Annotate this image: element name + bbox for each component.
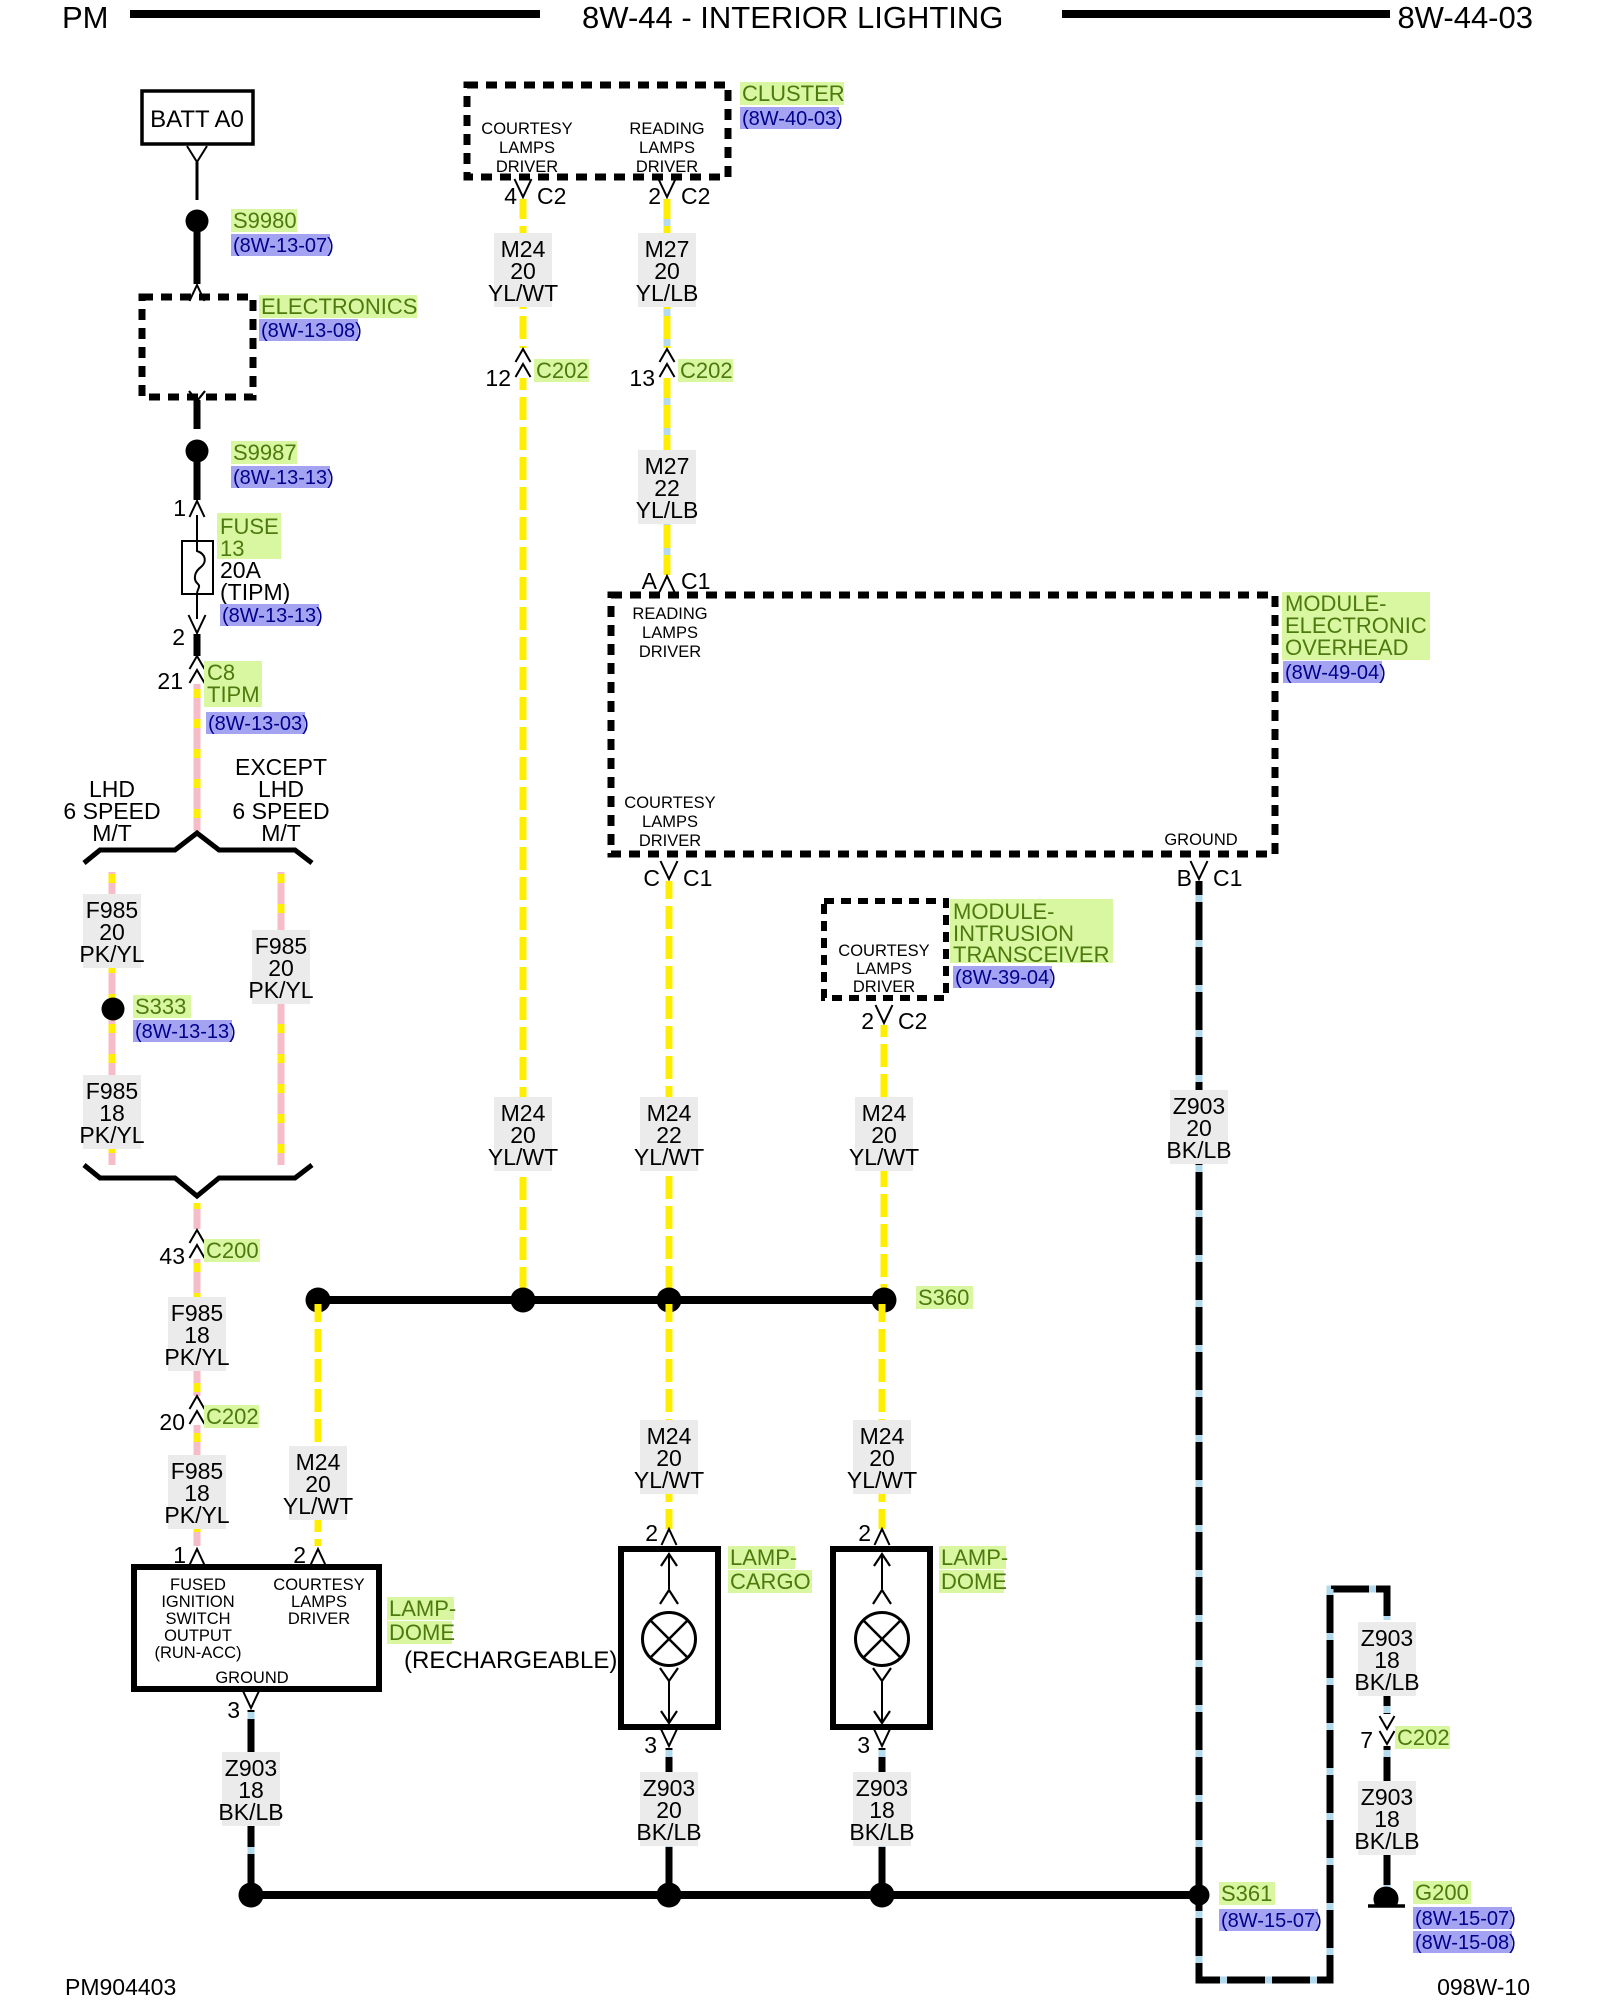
lamp LAMP-DOME box bbox=[833, 1549, 930, 1727]
connector Y below ELECTRONICS bbox=[189, 391, 205, 401]
svg-text:S9980: S9980 bbox=[233, 208, 297, 233]
svg-text:LAMPS: LAMPS bbox=[856, 960, 912, 978]
svg-text:LAMPS: LAMPS bbox=[291, 1593, 347, 1611]
svg-text:SWITCH: SWITCH bbox=[165, 1610, 230, 1628]
label M27 22 YL/LB bbox=[636, 450, 699, 524]
svg-text:YL/WT: YL/WT bbox=[849, 1144, 919, 1170]
svg-text:TRANSCEIVER: TRANSCEIVER bbox=[953, 942, 1109, 967]
svg-text:BK/LB: BK/LB bbox=[849, 1819, 914, 1845]
svg-text:DRIVER: DRIVER bbox=[496, 158, 558, 176]
svg-text:M/T: M/T bbox=[92, 820, 132, 846]
svg-text:CLUSTER: CLUSTER bbox=[742, 81, 845, 106]
label F985 18 PK/YL mid bbox=[164, 1297, 229, 1371]
wire M24 YL/WT C202 to S360 bbox=[520, 378, 527, 1296]
wire F985 20 PK/YL left branch bbox=[109, 872, 116, 1165]
svg-text:(8W-15-08): (8W-15-08) bbox=[1415, 1932, 1516, 1954]
label M24 20 YL/WT dome bbox=[847, 1420, 917, 1494]
svg-text:(8W-15-07): (8W-15-07) bbox=[1415, 1908, 1516, 1930]
label S360 bbox=[916, 1285, 973, 1310]
label EXCEPT LHD 6 SPEED M/T bbox=[232, 754, 329, 846]
svg-text:COURTESY: COURTESY bbox=[273, 1576, 364, 1594]
svg-text:READING: READING bbox=[629, 120, 704, 138]
label M24 20 YL/WT top bbox=[488, 233, 558, 307]
svg-text:LAMPS: LAMPS bbox=[642, 813, 698, 831]
junction dot ground bus left bbox=[239, 1883, 264, 1908]
header rule left bbox=[130, 10, 540, 18]
pin 2 C2 cluster bbox=[648, 179, 710, 209]
pin 2 LAMP-DOME bbox=[858, 1520, 889, 1546]
svg-text:2: 2 bbox=[648, 183, 661, 209]
module MODULE-ELECTRONIC OVERHEAD dashed box bbox=[611, 595, 1275, 854]
wire M27 22 YL/LB C202 to module pin A bbox=[664, 378, 671, 575]
svg-text:PK/YL: PK/YL bbox=[79, 941, 144, 967]
label Z903 20 BK/LB cargo bbox=[636, 1772, 701, 1846]
svg-text:BK/LB: BK/LB bbox=[1166, 1137, 1231, 1163]
svg-text:COURTESY: COURTESY bbox=[838, 942, 929, 960]
label M24 20 YL/WT cargo bbox=[634, 1420, 704, 1494]
svg-text:M/T: M/T bbox=[261, 820, 301, 846]
svg-text:12: 12 bbox=[485, 365, 511, 391]
label C202 pin 13 bbox=[678, 358, 733, 383]
svg-text:(8W-39-04): (8W-39-04) bbox=[955, 967, 1056, 989]
svg-text:DRIVER: DRIVER bbox=[853, 978, 915, 996]
label C202 left bbox=[204, 1404, 259, 1429]
wire S9987 to fuse thick bbox=[194, 462, 201, 500]
svg-text:TIPM: TIPM bbox=[207, 682, 260, 707]
label F985 20 PK/YL left bbox=[79, 894, 144, 968]
pin 1 lamp dome rechargeable bbox=[173, 1542, 204, 1568]
module MODULE-INTRUSION TRANSCEIVER dashed box bbox=[824, 901, 946, 998]
svg-text:YL/WT: YL/WT bbox=[634, 1467, 704, 1493]
svg-text:21: 21 bbox=[157, 668, 183, 694]
junction dot S360 right bbox=[872, 1288, 897, 1313]
svg-text:READING: READING bbox=[632, 605, 707, 623]
svg-text:ELECTRONICS: ELECTRONICS bbox=[261, 294, 417, 319]
junction dot ground bus dome bbox=[870, 1883, 895, 1908]
svg-text:DOME: DOME bbox=[389, 1620, 455, 1645]
svg-text:PK/YL: PK/YL bbox=[248, 977, 313, 1003]
svg-text:098W-10: 098W-10 bbox=[1437, 1974, 1530, 2000]
wire into fuse thin bbox=[196, 515, 198, 545]
label M24 20 YL/WT mid bbox=[488, 1097, 558, 1171]
wire S9980 to ELECTRONICS thick bbox=[194, 232, 201, 284]
svg-text:4: 4 bbox=[504, 183, 517, 209]
junction dot ground bus cargo bbox=[657, 1883, 682, 1908]
connector chevron into ELECTRONICS bbox=[190, 285, 205, 301]
svg-text:(8W-13-07): (8W-13-07) bbox=[233, 235, 334, 257]
pin C C1 module overhead bbox=[643, 861, 712, 891]
svg-text:LAMPS: LAMPS bbox=[639, 139, 695, 157]
label Z903 18 BK/LB loop lower bbox=[1354, 1781, 1419, 1855]
junction dot S360 left bbox=[306, 1288, 331, 1313]
pin 2 LAMP-CARGO bbox=[645, 1520, 676, 1546]
svg-text:(8W-15-07): (8W-15-07) bbox=[1221, 1910, 1322, 1932]
label S9980 (8W-13-07) bbox=[231, 208, 334, 257]
label S333 (8W-13-13) bbox=[133, 994, 236, 1043]
wire M24 YL/WT S360 to lamp dome pin 2 bbox=[879, 1304, 886, 1529]
label LAMP-CARGO bbox=[728, 1545, 812, 1594]
wire Z903 20 BK/LB module pin B to S361 bbox=[1196, 881, 1203, 1895]
label Z903 20 BK/LB right bbox=[1166, 1090, 1231, 1164]
svg-text:PK/YL: PK/YL bbox=[79, 1122, 144, 1148]
label M24 20 YL/WT dome rechargeable bbox=[283, 1446, 353, 1520]
svg-text:(8W-13-13): (8W-13-13) bbox=[135, 1021, 236, 1043]
svg-text:DRIVER: DRIVER bbox=[639, 643, 701, 661]
svg-text:C202: C202 bbox=[1397, 1725, 1450, 1750]
label Z903 18 BK/LB loop upper bbox=[1354, 1622, 1419, 1696]
svg-text:DRIVER: DRIVER bbox=[639, 832, 701, 850]
svg-text:PM904403: PM904403 bbox=[65, 1974, 176, 2000]
svg-text:13: 13 bbox=[629, 365, 655, 391]
splice S9987 bbox=[186, 440, 209, 463]
svg-text:BK/LB: BK/LB bbox=[636, 1819, 701, 1845]
svg-text:B: B bbox=[1177, 865, 1192, 891]
svg-text:C2: C2 bbox=[681, 183, 710, 209]
svg-text:C: C bbox=[643, 865, 660, 891]
svg-text:CARGO: CARGO bbox=[730, 1569, 811, 1594]
svg-text:S333: S333 bbox=[135, 994, 186, 1019]
pin B C1 module overhead ground bbox=[1177, 861, 1243, 891]
label M24 20 YL/WT intrusion bbox=[849, 1097, 919, 1171]
svg-text:A: A bbox=[642, 568, 658, 594]
svg-text:S9987: S9987 bbox=[233, 440, 297, 465]
svg-text:(RUN-ACC): (RUN-ACC) bbox=[154, 1644, 241, 1662]
svg-text:COURTESY: COURTESY bbox=[481, 120, 572, 138]
label LAMP-DOME (RECHARGEABLE) bbox=[387, 1596, 617, 1674]
svg-text:DRIVER: DRIVER bbox=[288, 1610, 350, 1628]
svg-text:(8W-13-03): (8W-13-03) bbox=[208, 713, 309, 735]
label M24 22 YL/WT bbox=[634, 1097, 704, 1171]
pin 3 lamp dome rechargeable bbox=[227, 1690, 259, 1723]
label Z903 18 BK/LB left bbox=[218, 1752, 283, 1826]
splice S333 bbox=[102, 998, 125, 1021]
svg-text:C1: C1 bbox=[1213, 865, 1242, 891]
svg-text:C1: C1 bbox=[681, 568, 710, 594]
pin 2 lamp dome rechargeable bbox=[293, 1542, 325, 1568]
svg-text:YL/WT: YL/WT bbox=[283, 1493, 353, 1519]
svg-text:LAMP-: LAMP- bbox=[730, 1545, 797, 1570]
wire fuse to C8 thick bbox=[194, 634, 201, 656]
label LHD 6 SPEED M/T bbox=[63, 776, 160, 846]
svg-text:20: 20 bbox=[159, 1409, 185, 1435]
svg-text:C2: C2 bbox=[537, 183, 566, 209]
svg-text:(RECHARGEABLE): (RECHARGEABLE) bbox=[404, 1647, 617, 1674]
label LAMP-DOME bbox=[939, 1545, 1008, 1594]
svg-text:7: 7 bbox=[1360, 1727, 1373, 1753]
svg-text:2: 2 bbox=[861, 1008, 874, 1034]
wire F985 PK/YL fuse to branch split bbox=[194, 684, 201, 831]
splice S361 junction dot bbox=[1189, 1885, 1210, 1906]
svg-text:2: 2 bbox=[645, 1520, 658, 1546]
svg-text:1: 1 bbox=[173, 495, 186, 521]
wire M24 22 YL/WT module pin C to S360 bbox=[666, 881, 673, 1296]
wire C202 to lamp dome rechargeable pin 1 F985 PK/YL bbox=[194, 1425, 201, 1546]
wire Z903 20 BK/LB cargo to ground bus bbox=[666, 1748, 673, 1895]
connector C202 pin 13 chevrons bbox=[660, 349, 675, 362]
pin 3 LAMP-CARGO bbox=[644, 1728, 677, 1758]
svg-text:DRIVER: DRIVER bbox=[636, 158, 698, 176]
wire M24 20 YL/WT cluster pin 4 to C202 bbox=[520, 199, 527, 348]
label FUSE 13 20A (TIPM) (8W-13-13) bbox=[217, 513, 323, 627]
header rule right bbox=[1062, 10, 1390, 18]
wire out of fuse thin bbox=[196, 594, 198, 619]
svg-text:(8W-13-08): (8W-13-08) bbox=[261, 320, 362, 342]
splice S9980 bbox=[186, 210, 209, 233]
connector C8 pin 21 chevrons bbox=[190, 656, 205, 669]
svg-text:3: 3 bbox=[857, 1732, 870, 1758]
svg-text:3: 3 bbox=[644, 1732, 657, 1758]
svg-text:GROUND: GROUND bbox=[1164, 831, 1237, 849]
svg-text:YL/LB: YL/LB bbox=[636, 497, 699, 523]
svg-text:LAMP-: LAMP- bbox=[389, 1596, 456, 1621]
fuse F13 box bbox=[182, 541, 213, 594]
wire F985 20 PK/YL right branch bbox=[278, 872, 285, 1165]
wire Z903 BK/LB S361 loop to C202 bbox=[1199, 1589, 1387, 1980]
junction dot S360 reading wire bbox=[657, 1288, 682, 1313]
svg-text:PK/YL: PK/YL bbox=[164, 1502, 229, 1528]
module CLUSTER dashed box bbox=[467, 85, 728, 177]
label S361 (8W-15-07) bbox=[1219, 1881, 1322, 1932]
connector C200 pin 43 chevrons bbox=[190, 1230, 205, 1243]
svg-text:OUTPUT: OUTPUT bbox=[164, 1627, 232, 1645]
lamp LAMP-CARGO box bbox=[621, 1549, 718, 1727]
pin 2 C2 intrusion transceiver bbox=[861, 1005, 927, 1034]
svg-text:GROUND: GROUND bbox=[215, 1669, 288, 1687]
svg-text:C202: C202 bbox=[680, 358, 733, 383]
svg-text:(8W-13-13): (8W-13-13) bbox=[233, 467, 334, 489]
wire M27 20 YL/LB cluster pin 2 to C202 bbox=[664, 199, 671, 348]
connector V below BATT A0 bbox=[187, 146, 207, 162]
wire BK/LB label to C202 pin 7 bbox=[1384, 1696, 1391, 1714]
label S9987 (8W-13-13) bbox=[231, 440, 334, 489]
svg-text:43: 43 bbox=[159, 1243, 185, 1269]
label G200 (8W-15-07) (8W-15-08) bbox=[1413, 1880, 1516, 1954]
lamp LAMP-DOME RECHARGEABLE box bbox=[134, 1567, 379, 1689]
pin A C1 module overhead bbox=[642, 568, 711, 594]
fuse F13 element curve bbox=[195, 541, 205, 594]
wire M24 YL/WT S360 to lamp dome rechargeable pin 2 bbox=[315, 1304, 322, 1546]
svg-text:8W-44 - INTERIOR LIGHTING: 8W-44 - INTERIOR LIGHTING bbox=[582, 0, 1003, 35]
svg-text:BK/LB: BK/LB bbox=[1354, 1828, 1419, 1854]
label Z903 18 BK/LB dome bbox=[849, 1772, 914, 1846]
ground bus S361 line bbox=[251, 1891, 1199, 1899]
label C202 pin 12 bbox=[534, 358, 589, 383]
svg-text:C200: C200 bbox=[206, 1238, 259, 1263]
label F985 18 PK/YL left bbox=[79, 1075, 144, 1149]
svg-text:YL/WT: YL/WT bbox=[847, 1467, 917, 1493]
svg-text:PK/YL: PK/YL bbox=[164, 1344, 229, 1370]
svg-text:G200: G200 bbox=[1415, 1880, 1469, 1905]
svg-text:(8W-40-03): (8W-40-03) bbox=[742, 108, 843, 130]
label M27 20 YL/LB bbox=[636, 233, 699, 307]
splice bus S360 bbox=[318, 1296, 884, 1304]
svg-text:3: 3 bbox=[227, 1697, 240, 1723]
wire M24 20 YL/WT intrusion to S360 bbox=[881, 1025, 888, 1296]
junction dot S360 courtesy wire bbox=[511, 1288, 536, 1313]
svg-text:YL/LB: YL/LB bbox=[636, 280, 699, 306]
svg-text:C1: C1 bbox=[683, 865, 712, 891]
svg-text:8W-44-03: 8W-44-03 bbox=[1397, 0, 1533, 35]
label C8 TIPM (8W-13-03) bbox=[204, 660, 309, 735]
svg-text:YL/WT: YL/WT bbox=[488, 280, 558, 306]
svg-text:LAMPS: LAMPS bbox=[499, 139, 555, 157]
wire ELECTRONICS to S9987 thick bbox=[194, 400, 201, 429]
label ELECTRONICS (8W-13-08) bbox=[259, 294, 417, 342]
svg-text:C202: C202 bbox=[206, 1404, 259, 1429]
svg-text:C2: C2 bbox=[898, 1008, 927, 1034]
svg-text:YL/WT: YL/WT bbox=[634, 1144, 704, 1170]
svg-text:S360: S360 bbox=[918, 1285, 969, 1310]
wire C200 to C202 F985 PK/YL bbox=[194, 1259, 201, 1396]
connector C202 pin 12 chevrons bbox=[516, 349, 531, 362]
label C202 pin 7 bbox=[1395, 1725, 1450, 1750]
svg-text:(8W-49-04): (8W-49-04) bbox=[1285, 662, 1386, 684]
connector C202 pin 20 chevrons bbox=[190, 1396, 205, 1409]
svg-text:2: 2 bbox=[858, 1520, 871, 1546]
pin 3 LAMP-DOME bbox=[857, 1728, 890, 1758]
svg-text:BK/LB: BK/LB bbox=[218, 1799, 283, 1825]
svg-text:FUSED: FUSED bbox=[170, 1576, 226, 1594]
label F985 18 PK/YL lower bbox=[164, 1455, 229, 1529]
label MODULE-INTRUSION TRANSCEIVER (8W-39-04) bbox=[950, 899, 1113, 989]
pin 4 C2 cluster bbox=[504, 179, 566, 209]
wire BK/LB C202 to G200 bbox=[1384, 1746, 1391, 1893]
svg-text:BK/LB: BK/LB bbox=[1354, 1669, 1419, 1695]
svg-text:PM: PM bbox=[62, 0, 109, 35]
module ELECTRONICS dashed box bbox=[142, 297, 253, 397]
svg-text:IGNITION: IGNITION bbox=[161, 1593, 234, 1611]
label MODULE-ELECTRONIC OVERHEAD (8W-49-04) bbox=[1282, 591, 1430, 684]
svg-text:S361: S361 bbox=[1221, 1881, 1272, 1906]
wire Z903 18 BK/LB dome rechargeable to ground bus bbox=[248, 1710, 255, 1895]
wire Z903 18 BK/LB dome to ground bus bbox=[879, 1748, 886, 1895]
connector C202 pin 7 chevrons down bbox=[1380, 1716, 1395, 1729]
battery feed BATT A0 box bbox=[142, 91, 253, 144]
svg-text:LAMP-: LAMP- bbox=[941, 1545, 1008, 1570]
svg-text:DOME: DOME bbox=[941, 1569, 1007, 1594]
label CLUSTER (8W-40-03) bbox=[740, 81, 845, 130]
label F985 20 PK/YL right bbox=[248, 930, 313, 1004]
svg-text:2: 2 bbox=[172, 624, 185, 650]
wire battery feed thin bbox=[196, 162, 199, 200]
brace merge bottom bbox=[84, 1165, 312, 1196]
ground G200 symbol bbox=[1368, 1887, 1405, 1906]
svg-text:C202: C202 bbox=[536, 358, 589, 383]
svg-text:COURTESY: COURTESY bbox=[624, 794, 715, 812]
wire M24 YL/WT S360 to lamp cargo pin 2 bbox=[666, 1304, 673, 1529]
brace split top bbox=[84, 833, 312, 863]
svg-text:OVERHEAD: OVERHEAD bbox=[1285, 635, 1408, 660]
svg-text:(TIPM): (TIPM) bbox=[220, 579, 290, 605]
svg-text:BATT A0: BATT A0 bbox=[150, 106, 244, 133]
label C200 bbox=[204, 1238, 260, 1263]
wire brace to C200 PK/YL bbox=[194, 1203, 201, 1229]
svg-text:YL/WT: YL/WT bbox=[488, 1144, 558, 1170]
svg-text:(8W-13-13): (8W-13-13) bbox=[222, 605, 323, 627]
svg-text:LAMPS: LAMPS bbox=[642, 624, 698, 642]
